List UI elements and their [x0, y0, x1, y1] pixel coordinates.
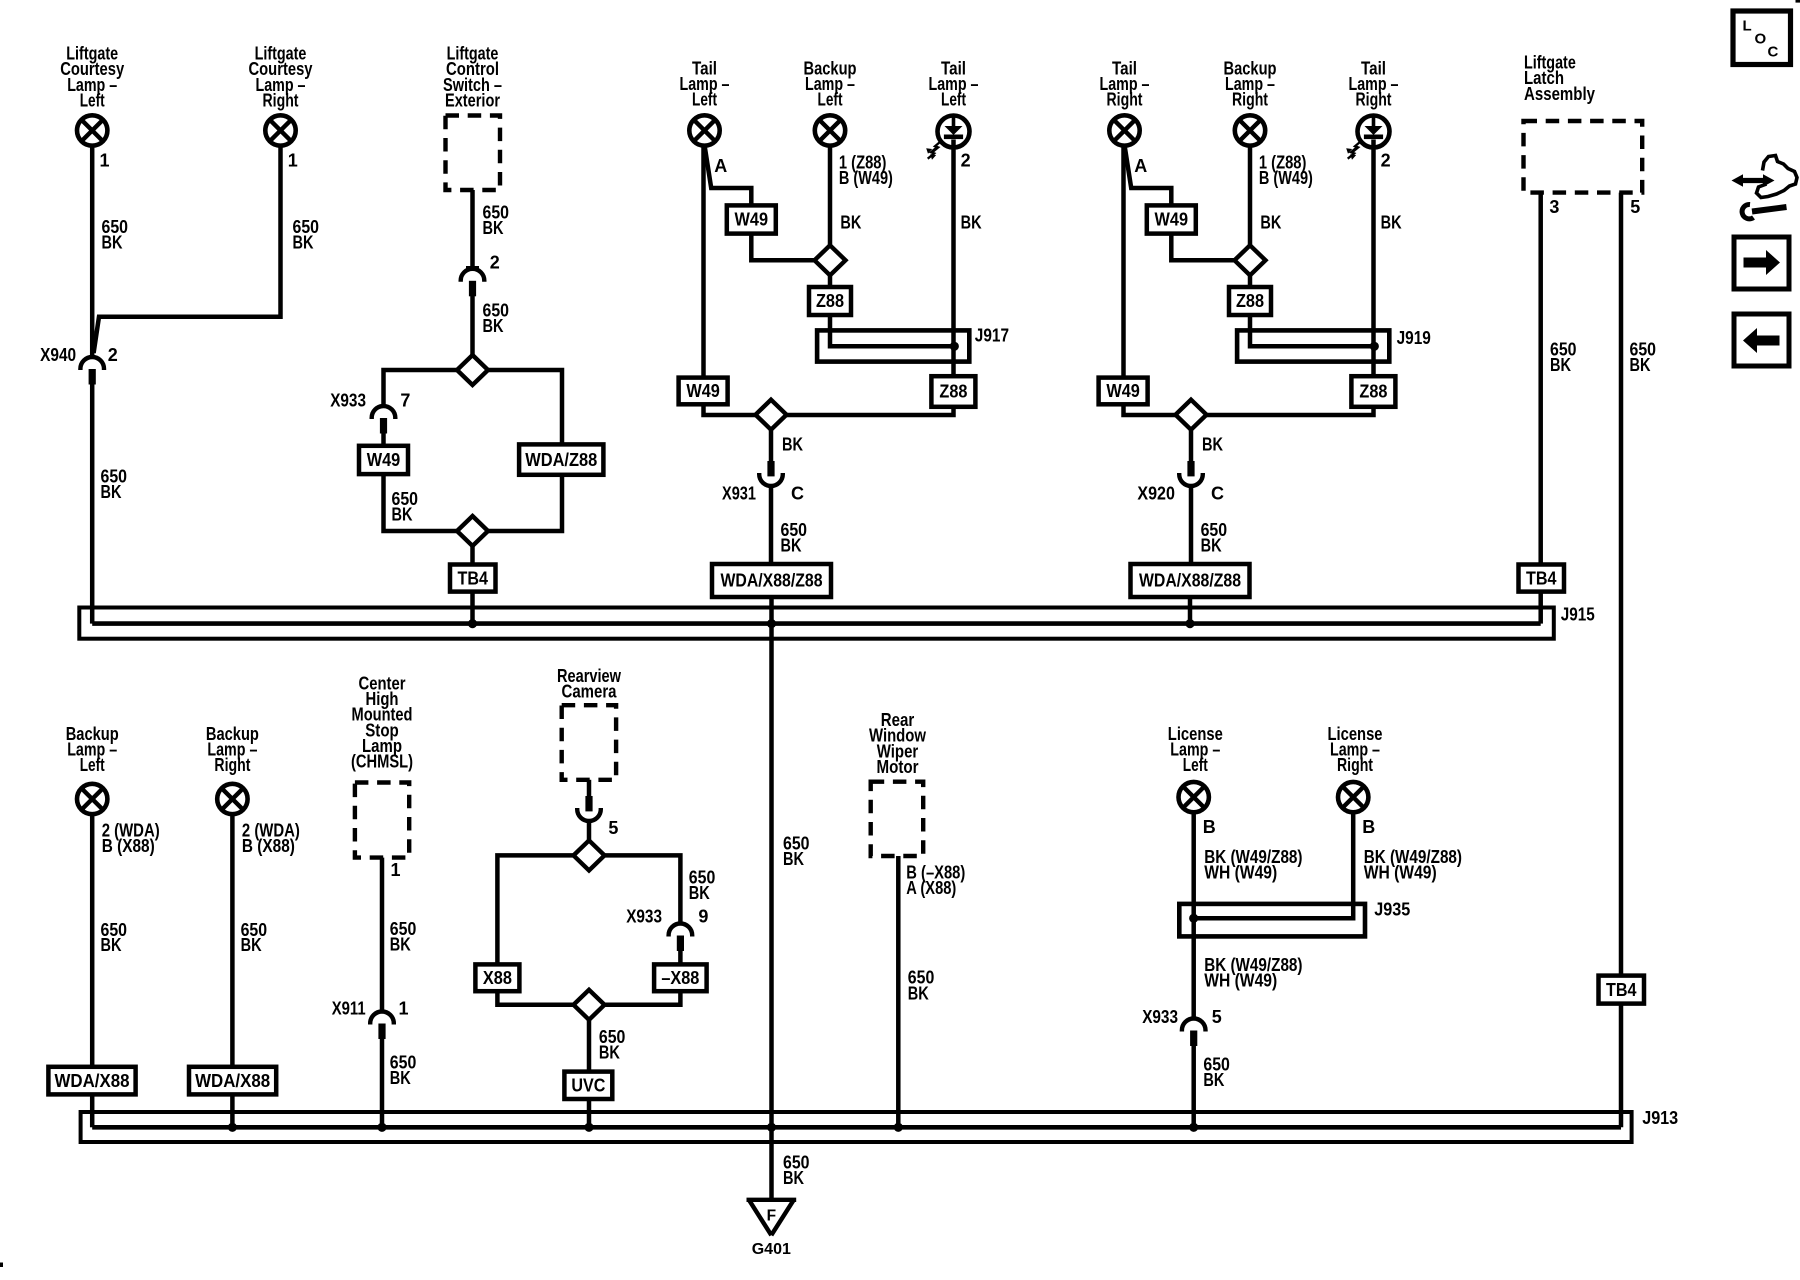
harness option box WDA/X88 (right): [189, 1067, 276, 1095]
svg-text:Z88: Z88: [816, 291, 844, 311]
label: Rearview Camera: [557, 666, 622, 702]
lamp: Liftgate Courtesy Lamp - Right: [265, 115, 295, 145]
value label 650 BK (camera bottom): [599, 1027, 626, 1063]
svg-text:Right: Right: [214, 755, 250, 775]
wire: X88 box to merge diamond: [497, 991, 573, 1005]
wire: diamond to X931: [769, 430, 774, 461]
svg-text:W49: W49: [1155, 210, 1189, 230]
svg-text:B (W49): B (W49): [839, 168, 893, 188]
label: Tail Lamp - Right (LED): [1349, 59, 1399, 110]
junction on J915 (switch): [468, 619, 477, 628]
value label BK/WH (license left): [1204, 847, 1302, 883]
svg-text:BK: BK: [782, 435, 803, 455]
ground bus J915: [79, 608, 1554, 639]
wire: TB4 to bus J913 right end: [1619, 1004, 1624, 1128]
junction on J913 (license): [1189, 1123, 1198, 1132]
svg-text:B: B: [1203, 817, 1216, 837]
component: Rear Window Wiper Motor (dashed): [871, 782, 924, 856]
wire: X933 to -X88 box: [678, 951, 683, 964]
wire: WDA/X88/Z88 left to bus J915: [769, 597, 774, 624]
connector X933 pin 7: [372, 406, 396, 433]
harness option box Z88 (right upper): [1229, 287, 1271, 315]
wire: X933 to bus J913, circuit 650 BK: [1191, 1046, 1196, 1127]
value label 650 BK (switch lower): [483, 301, 510, 337]
svg-text:L: L: [1743, 18, 1752, 35]
icon: arrow right (continuation): [1734, 237, 1789, 289]
svg-text:Z88: Z88: [939, 382, 967, 402]
svg-text:BK: BK: [1201, 536, 1222, 556]
svg-text:5: 5: [608, 818, 618, 838]
wire: switch to connector, circuit 650 BK: [470, 190, 475, 267]
svg-text:BK: BK: [101, 482, 122, 502]
wire: WDA/X88 right to bus J913: [230, 1094, 235, 1127]
value label 650 BK (switch upper): [483, 203, 510, 239]
wire: Z88 box into J917 splice: [830, 315, 954, 346]
splice diamond (tail right merge): [1176, 400, 1207, 430]
icon: arrow left (continuation): [1734, 314, 1789, 366]
label: Center High Mounted Stop Lamp (CHMSL): [351, 674, 413, 772]
svg-text:W49: W49: [686, 381, 720, 401]
svg-text:WDA/X88/Z88: WDA/X88/Z88: [721, 571, 823, 591]
wire: X940 to ground bus J915, circuit 650 BK: [90, 385, 95, 624]
harness option box WDA/X88/Z88 (right): [1131, 564, 1250, 597]
value label 650 BK (latch pin 5): [1630, 339, 1657, 375]
svg-text:X920: X920: [1137, 484, 1175, 504]
svg-text:WDA/Z88: WDA/Z88: [525, 450, 597, 470]
wire: LED tail lamp left through J917 to Z88 box, BK: [951, 140, 956, 377]
value label 650 BK (CHMSL upper): [390, 919, 417, 955]
harness option box X88: [475, 964, 519, 991]
svg-text:W49: W49: [1106, 381, 1140, 401]
lamp (LED): Tail Lamp - Right: [1346, 116, 1389, 160]
wire: WDA/X88/Z88 right to bus J915: [1188, 597, 1193, 624]
junction inside J919: [1370, 342, 1379, 351]
svg-text:1: 1: [391, 860, 401, 880]
junction on J915 (center): [767, 619, 776, 628]
svg-text:3: 3: [1549, 197, 1559, 217]
wire: camera to connector: [587, 780, 592, 796]
svg-text:1: 1: [288, 150, 298, 170]
label: Liftgate Latch Assembly: [1524, 53, 1595, 104]
wire: backup lamp right to WDA/X88 box, circuit 650 BK: [230, 814, 235, 1067]
svg-text:BK: BK: [840, 213, 861, 233]
lamp: Backup Lamp - Left (bottom): [77, 784, 107, 814]
svg-text:Right: Right: [1232, 90, 1268, 110]
svg-text:Left: Left: [80, 755, 105, 775]
svg-text:BK: BK: [599, 1043, 620, 1063]
wire: license lamp left through J935: [1191, 812, 1196, 936]
svg-text:9: 9: [698, 907, 708, 927]
svg-text:1: 1: [100, 150, 110, 170]
value label 650 BK (courtesy left): [102, 217, 129, 253]
connector (camera) pin 5: [577, 796, 601, 821]
svg-text:A: A: [1134, 156, 1147, 176]
svg-text:WDA/X88: WDA/X88: [195, 1071, 270, 1091]
wire: tail lamp right pin A to W49 box (upper): [1125, 147, 1172, 205]
svg-text:TB4: TB4: [458, 568, 489, 588]
svg-text:BK: BK: [390, 1068, 411, 1088]
svg-text:BK: BK: [392, 504, 413, 524]
lamp: Tail Lamp - Right: [1109, 115, 1139, 145]
component: Liftgate Control Switch - Exterior (dashed): [446, 116, 501, 191]
wire: main ground feed J915 to J913 to G401, circuit 650 BK: [769, 624, 774, 1200]
value label 650 BK (ground drop): [783, 1152, 810, 1188]
wire: X911 to bus J913, circuit 650 BK: [380, 1039, 385, 1127]
svg-text:F: F: [767, 1208, 776, 1225]
svg-text:B (X88): B (X88): [242, 836, 295, 856]
component: Rearview Camera (dashed): [562, 705, 616, 780]
harness option box W49 (tail left upper): [727, 205, 776, 233]
harness option box Z88 (right lower): [1351, 376, 1395, 407]
splice diamond (backup left): [815, 245, 846, 275]
label: Rear Window Wiper Motor: [869, 710, 927, 777]
wire: Z88 lower box to merge diamond (right): [1207, 407, 1374, 415]
svg-text:BK: BK: [1260, 213, 1281, 233]
svg-text:2: 2: [961, 151, 971, 171]
wire: connector to splice diamond (camera): [587, 822, 592, 840]
wire: Z88 lower box to merge diamond: [787, 407, 954, 415]
svg-text:BK: BK: [1203, 1070, 1224, 1090]
harness option box WDA/X88 (left): [48, 1067, 135, 1095]
wire: diamond to X920: [1189, 430, 1194, 461]
svg-text:Motor: Motor: [877, 757, 919, 777]
harness option box W49 (switch branch): [359, 446, 408, 474]
svg-text:Z88: Z88: [1236, 291, 1264, 311]
label: Tail Lamp - Right: [1100, 59, 1150, 110]
svg-text:BK: BK: [483, 218, 504, 238]
wire: X931 to WDA/X88/Z88 box, circuit 650 BK: [769, 487, 774, 564]
svg-text:Right: Right: [1356, 90, 1392, 110]
junction inside J935: [1189, 914, 1198, 923]
wire: J935 to X933 (license): [1191, 936, 1196, 1017]
svg-text:WH (W49): WH (W49): [1204, 863, 1277, 883]
wire: tail lamp left pin A to W49 box (lower): [701, 146, 706, 378]
svg-text:Left: Left: [80, 90, 105, 110]
lamp: Backup Lamp - Left (top): [815, 115, 845, 145]
svg-text:WH (W49): WH (W49): [1364, 863, 1437, 883]
wire: tail lamp right pin A to W49 box (lower): [1121, 146, 1126, 378]
harness option box W49 (tail left lower): [679, 378, 728, 405]
inline connector J935: [1179, 904, 1365, 937]
junction on J913 (main feed): [767, 1123, 776, 1132]
scan artifact marks: [1796, 0, 1800, 3]
wire: W49 box to merge diamond, circuit 650 BK: [384, 474, 458, 531]
LOC legend box: [1733, 11, 1791, 65]
wire: W49 box to splice diamond: [751, 234, 814, 261]
svg-text:Assembly: Assembly: [1524, 84, 1595, 104]
harness option box Z88 (left upper): [809, 287, 851, 315]
connector X911 pin 1: [370, 1011, 394, 1039]
svg-text:–X88: –X88: [661, 968, 699, 988]
svg-text:Right: Right: [1107, 90, 1143, 110]
value label 650 BK (main feed): [783, 834, 810, 870]
svg-text:BK: BK: [293, 233, 314, 253]
value label 650 BK (X920): [1201, 520, 1228, 556]
svg-text:(CHMSL): (CHMSL): [351, 752, 413, 772]
wire: LED tail lamp right through J919 to Z88 box, BK: [1371, 140, 1376, 377]
value label BK/WH (license right): [1364, 847, 1462, 883]
label: Liftgate Control Switch - Exterior: [443, 44, 502, 111]
svg-text:W49: W49: [367, 450, 401, 470]
svg-text:Left: Left: [941, 90, 966, 110]
svg-text:7: 7: [400, 391, 410, 411]
svg-text:A: A: [714, 156, 727, 176]
wire: courtesy lamp left to X940, circuit 650 BK: [90, 146, 95, 357]
label: Backup Lamp - Right (bottom): [206, 724, 259, 775]
svg-text:Right: Right: [1337, 755, 1373, 775]
label: License Lamp - Left: [1168, 724, 1223, 775]
svg-text:BK: BK: [241, 935, 262, 955]
wire: tail lamp left pin A to W49 box (upper): [705, 147, 752, 205]
svg-text:2: 2: [108, 345, 118, 365]
svg-text:WDA/X88/Z88: WDA/X88/Z88: [1139, 571, 1241, 591]
svg-text:A (X88): A (X88): [906, 878, 956, 898]
label: Backup Lamp - Left (top): [804, 59, 857, 110]
svg-text:Left: Left: [692, 90, 717, 110]
svg-text:2: 2: [1381, 151, 1391, 171]
harness option box -X88: [654, 964, 707, 991]
svg-text:BK: BK: [908, 983, 929, 1003]
wire: diamond to TB4: [470, 546, 475, 565]
lamp: Backup Lamp - Right (top): [1235, 115, 1265, 145]
svg-text:TB4: TB4: [1526, 568, 1557, 588]
value label 650 BK (X931): [781, 520, 808, 556]
svg-text:B (W49): B (W49): [1259, 168, 1313, 188]
harness option box W49 (tail right lower): [1099, 378, 1148, 405]
svg-text:TB4: TB4: [1606, 980, 1637, 1000]
junction on J913 (CHMSL): [377, 1123, 386, 1132]
wire: diamond to UVC box, circuit 650 BK: [587, 1020, 592, 1072]
wire: W49 box to splice diamond (right): [1171, 234, 1234, 261]
harness option box UVC: [564, 1072, 612, 1099]
label: Backup Lamp - Left (bottom): [66, 724, 119, 775]
svg-text:J935: J935: [1374, 899, 1410, 919]
value label 650 BK (latch pin 3): [1550, 339, 1577, 375]
wire: latch pin 3 to TB4, circuit 650 BK: [1538, 193, 1543, 565]
svg-text:BK: BK: [689, 883, 710, 903]
icon: connector end view (freehand): [1732, 156, 1798, 219]
harness option box Z88 (left lower): [931, 376, 975, 407]
wire: diamond to X933 (camera branch), circuit 650 BK: [605, 855, 681, 922]
svg-text:BK: BK: [1202, 435, 1223, 455]
svg-text:BK: BK: [390, 935, 411, 955]
svg-text:1: 1: [399, 999, 409, 1019]
svg-text:X933: X933: [1142, 1007, 1178, 1027]
svg-text:Camera: Camera: [562, 682, 618, 702]
value label 650 BK (camera right branch): [689, 867, 716, 903]
svg-text:BK: BK: [781, 536, 802, 556]
inline connector J917: [817, 330, 969, 361]
splice diamond (camera bottom): [574, 990, 605, 1020]
wire: TB4 to bus J915 right end: [1538, 592, 1543, 624]
takeout box TB4 (switch): [450, 565, 496, 592]
wire: backup lamp left to diamond, BK: [828, 146, 833, 245]
svg-text:C: C: [791, 484, 804, 504]
splice diamond (camera top): [574, 840, 605, 870]
value label 650 BK (backup bottom right): [241, 920, 268, 955]
svg-text:B: B: [1362, 817, 1375, 837]
svg-text:J919: J919: [1397, 328, 1431, 348]
splice diamond (tail left merge): [756, 400, 787, 430]
svg-text:J917: J917: [975, 325, 1009, 345]
svg-text:BK: BK: [483, 316, 504, 336]
wire: -X88 box to merge diamond: [605, 991, 681, 1005]
svg-text:BK: BK: [1630, 355, 1651, 375]
wire: UVC to bus J913: [587, 1099, 592, 1127]
svg-text:Z88: Z88: [1359, 382, 1387, 402]
svg-text:Exterior: Exterior: [445, 90, 500, 110]
svg-text:X933: X933: [626, 907, 662, 927]
junction on J913 (wiper): [894, 1123, 903, 1132]
svg-text:BK: BK: [783, 1168, 804, 1188]
wire: latch pin 5 to TB4, circuit 650 BK: [1619, 193, 1624, 976]
wire: W49 lower box to merge diamond (right): [1124, 404, 1176, 415]
svg-text:WDA/X88: WDA/X88: [55, 1071, 130, 1091]
svg-text:G401: G401: [752, 1241, 791, 1258]
svg-text:BK: BK: [102, 233, 123, 253]
component: Liftgate Latch Assembly (dashed): [1524, 121, 1643, 193]
wire: diamond to X88 box: [497, 855, 573, 964]
label: Backup Lamp - Right (top): [1224, 59, 1277, 110]
svg-text:C: C: [1211, 484, 1224, 504]
junction on J915 (right): [1185, 619, 1194, 628]
connector X931 pin C: [759, 461, 783, 486]
value label 650 BK (W49 branch): [392, 489, 419, 525]
svg-text:Left: Left: [818, 90, 843, 110]
wire: Z88 box into J919 splice: [1250, 315, 1374, 346]
svg-text:BK: BK: [1550, 355, 1571, 375]
svg-text:5: 5: [1212, 1007, 1222, 1027]
inline connector J919: [1237, 330, 1389, 361]
junction on J913 (UVC): [584, 1123, 593, 1132]
takeout box TB4 (latch pin 3): [1519, 565, 1565, 592]
label: Liftgate Courtesy Lamp - Right: [249, 44, 313, 111]
wire: W49 lower box to merge diamond: [704, 404, 756, 415]
connector X933 pin 9: [669, 924, 693, 952]
splice diamond (backup right): [1235, 245, 1266, 275]
label: License Lamp - Right: [1328, 724, 1383, 775]
label: Tail Lamp - Left (LED): [929, 59, 979, 110]
value label 650 BK (backup bottom left): [101, 920, 128, 955]
connector (switch) pin 2: [461, 268, 485, 296]
component: CHMSL (dashed): [355, 783, 409, 858]
wire: diamond to Z88 box: [828, 275, 833, 287]
takeout box TB4 (latch pin 5): [1599, 976, 1645, 1004]
lamp: Tail Lamp - Left: [689, 115, 719, 145]
label: Tail Lamp - Left: [680, 59, 730, 110]
wire: X933 to W49 option box: [381, 433, 386, 446]
svg-text:J915: J915: [1561, 605, 1595, 625]
wire: connector to splice diamond: [470, 296, 475, 355]
connector X940 pin 2: [80, 357, 104, 385]
value label 650 BK (wiper): [908, 968, 935, 1004]
svg-text:Right: Right: [263, 90, 299, 110]
wire: TB4 to bus J915: [470, 592, 475, 624]
svg-text:UVC: UVC: [571, 1076, 605, 1096]
lamp: Liftgate Courtesy Lamp - Left: [77, 115, 107, 145]
harness option box WDA/Z88: [519, 444, 603, 474]
svg-text:X88: X88: [483, 968, 512, 988]
value label 650 BK (CHMSL lower): [390, 1052, 417, 1088]
wire: license lamp right into J935 splice: [1194, 812, 1354, 918]
value label 650 BK (below X940): [101, 467, 128, 503]
label: Liftgate Courtesy Lamp - Left: [60, 44, 124, 111]
connector X933 pin 5 (license): [1182, 1019, 1206, 1046]
svg-text:X931: X931: [722, 484, 756, 504]
ground G401: [747, 1200, 797, 1258]
wire: wiper motor to bus J913, circuit 650 BK: [896, 856, 901, 1127]
wire: backup lamp right to diamond, BK: [1248, 146, 1253, 245]
wire: diamond to Z88 box (right): [1248, 275, 1253, 287]
splice diamond (switch branch bottom): [457, 516, 488, 546]
wire: J913 internal bus conductor: [92, 1125, 1621, 1130]
splice diamond (switch branch top): [457, 355, 488, 385]
svg-text:Left: Left: [1183, 755, 1208, 775]
wire: CHMSL pin 1 to X911, circuit 650 BK: [380, 858, 385, 1010]
svg-text:WH (W49): WH (W49): [1204, 970, 1277, 990]
value label 650 BK (license): [1203, 1054, 1230, 1090]
junction inside J917: [950, 342, 959, 351]
value label BK/WH (below J935): [1204, 955, 1302, 991]
svg-text:BK: BK: [101, 935, 122, 955]
wire: J915 internal bus conductor: [92, 621, 1541, 626]
svg-text:W49: W49: [735, 210, 769, 230]
svg-text:X940: X940: [40, 345, 76, 365]
svg-text:J913: J913: [1642, 1108, 1678, 1128]
wire: WDA/X88 left to bus J913: [90, 1094, 95, 1127]
lamp: Backup Lamp - Right (bottom): [217, 784, 247, 814]
junction on J913 (backup right): [228, 1123, 237, 1132]
svg-text:B (X88): B (X88): [102, 836, 155, 856]
harness option box WDA/X88/Z88 (left): [712, 564, 831, 597]
lamp (LED): Tail Lamp - Left: [926, 116, 969, 160]
wire: diamond to WDA/Z88 option box: [488, 370, 562, 444]
svg-text:BK: BK: [1381, 213, 1402, 233]
wire: WDA/Z88 box to merge diamond: [488, 475, 562, 531]
connector X920 pin C: [1179, 461, 1203, 486]
svg-text:O: O: [1755, 31, 1767, 48]
svg-text:X933: X933: [330, 391, 366, 411]
value label 650 BK (courtesy right): [293, 217, 320, 253]
svg-text:2: 2: [490, 253, 500, 273]
wire: diamond to X933 (W49 branch): [384, 370, 458, 405]
svg-text:BK: BK: [783, 849, 804, 869]
lamp: License Lamp - Left: [1179, 782, 1209, 812]
harness option box W49 (tail right upper): [1147, 205, 1196, 233]
wire: X920 to WDA/X88/Z88 box, circuit 650 BK: [1189, 487, 1194, 564]
svg-text:BK: BK: [961, 213, 982, 233]
lamp: License Lamp - Right: [1338, 782, 1368, 812]
svg-text:C: C: [1768, 44, 1779, 61]
svg-text:X911: X911: [332, 999, 366, 1019]
wire: backup lamp left to WDA/X88 box, circuit 650 BK: [90, 814, 95, 1067]
svg-text:5: 5: [1630, 197, 1640, 217]
ground bus J913: [81, 1112, 1632, 1142]
wire: courtesy lamp right to X940, circuit 650 BK: [94, 146, 281, 353]
